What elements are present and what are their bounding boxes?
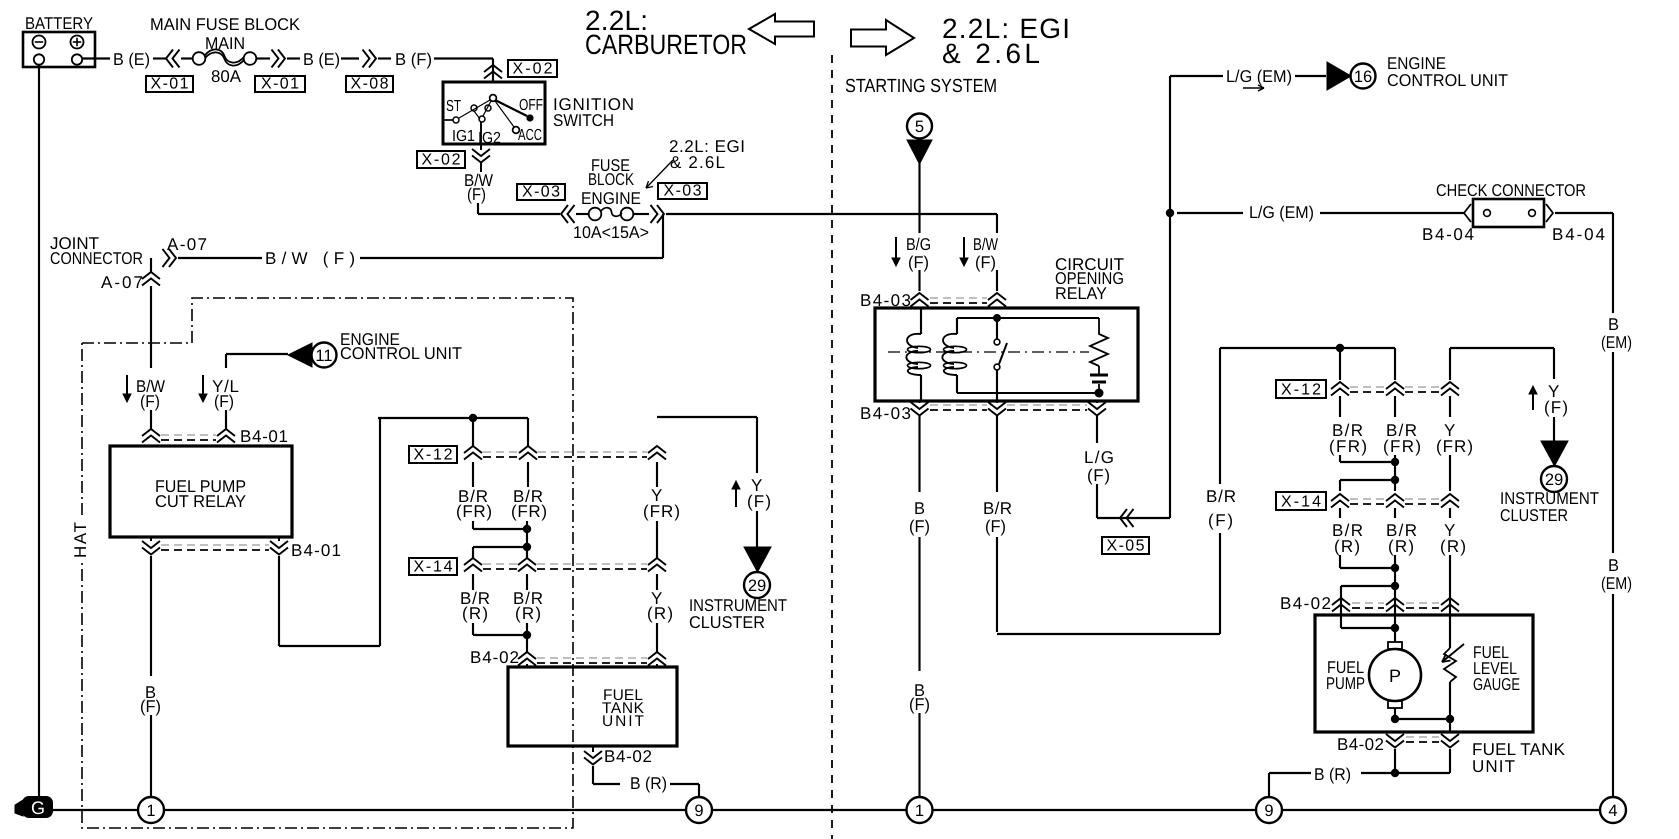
svg-text:(F): (F) (1087, 466, 1110, 485)
svg-text:X-03: X-03 (522, 184, 560, 201)
svg-text:MAIN: MAIN (205, 34, 245, 53)
svg-text:(F): (F) (467, 185, 486, 204)
svg-text:B/R: B/R (1206, 487, 1236, 506)
svg-text:(R): (R) (462, 604, 488, 623)
svg-text:G: G (31, 798, 45, 818)
svg-text:B/W: B/W (973, 235, 998, 254)
svg-text:(R): (R) (1440, 537, 1466, 556)
svg-text:B4-02: B4-02 (1337, 735, 1384, 754)
svg-text:CUT RELAY: CUT RELAY (155, 492, 246, 511)
svg-text:MAIN FUSE BLOCK: MAIN FUSE BLOCK (150, 15, 301, 34)
svg-text:(EM): (EM) (1601, 574, 1632, 593)
svg-text:P: P (1389, 666, 1401, 686)
svg-text:29: 29 (1545, 471, 1563, 489)
svg-text:STARTING SYSTEM: STARTING SYSTEM (845, 76, 997, 97)
svg-text:B (E): B (E) (303, 50, 340, 69)
svg-text:4: 4 (1608, 802, 1617, 820)
svg-text:1: 1 (146, 802, 155, 820)
svg-text:(R): (R) (1388, 537, 1414, 556)
svg-text:(F): (F) (140, 697, 161, 716)
svg-text:L/G (EM): L/G (EM) (1249, 203, 1314, 222)
svg-text:& 2.6L: & 2.6L (670, 153, 725, 172)
svg-text:CONNECTOR: CONNECTOR (50, 249, 143, 268)
svg-text:(R): (R) (1334, 537, 1360, 556)
svg-text:(FR): (FR) (456, 502, 492, 521)
svg-text:X-05: X-05 (1107, 538, 1145, 555)
svg-text:B (F): B (F) (395, 50, 432, 69)
svg-text:(FR): (FR) (643, 502, 680, 521)
svg-text:X-14: X-14 (1281, 494, 1321, 511)
svg-text:9: 9 (694, 802, 703, 820)
svg-text:(F): (F) (985, 517, 1006, 536)
svg-text:CLUSTER: CLUSTER (1500, 506, 1568, 525)
svg-text:80A: 80A (211, 67, 242, 86)
svg-text:5: 5 (915, 118, 924, 136)
svg-text:CLUSTER: CLUSTER (689, 613, 765, 632)
svg-text:X-08: X-08 (351, 76, 389, 93)
svg-text:(F): (F) (214, 392, 234, 411)
svg-text:GAUGE: GAUGE (1473, 675, 1520, 694)
svg-text:(F): (F) (975, 253, 996, 272)
svg-text:(F): (F) (747, 492, 771, 511)
svg-text:UNIT: UNIT (602, 713, 645, 730)
svg-text:B (R): B (R) (1314, 765, 1351, 784)
svg-text:X-01: X-01 (151, 76, 189, 93)
svg-text:BATTERY: BATTERY (25, 14, 93, 33)
svg-text:(F): (F) (909, 695, 930, 714)
svg-text:B4-04: B4-04 (1552, 225, 1605, 244)
svg-text:B: B (914, 499, 925, 518)
svg-text:(F): (F) (1208, 511, 1233, 530)
svg-text:RELAY: RELAY (1055, 284, 1107, 303)
svg-text:(F): (F) (908, 253, 929, 272)
svg-text:L/G (EM): L/G (EM) (1226, 67, 1292, 86)
svg-text:29: 29 (748, 577, 766, 595)
svg-text:X-12: X-12 (414, 447, 453, 464)
svg-text:1: 1 (915, 802, 924, 820)
svg-text:X-12: X-12 (1281, 382, 1321, 399)
svg-text:B: B (1608, 556, 1619, 575)
svg-text:(FR): (FR) (511, 502, 547, 521)
svg-text:10A<15A>: 10A<15A> (573, 223, 649, 242)
svg-text:B/R: B/R (983, 499, 1012, 518)
svg-text:CHECK CONNECTOR: CHECK CONNECTOR (1436, 181, 1586, 200)
svg-text:HAT: HAT (71, 522, 90, 558)
svg-text:X-14: X-14 (414, 559, 453, 576)
svg-text:X-02: X-02 (513, 61, 553, 78)
svg-text:B (R): B (R) (630, 774, 667, 793)
svg-text:(F): (F) (1544, 398, 1568, 417)
svg-text:B4-04: B4-04 (1422, 225, 1474, 244)
svg-text:B4-02: B4-02 (470, 648, 519, 667)
svg-text:BLOCK: BLOCK (588, 170, 635, 189)
svg-text:L/G: L/G (1084, 448, 1114, 467)
svg-text:9: 9 (1264, 802, 1273, 820)
svg-text:A-07: A-07 (101, 273, 143, 292)
svg-text:SWITCH: SWITCH (553, 111, 614, 130)
svg-text:UNIT: UNIT (1472, 757, 1515, 776)
svg-text:(FR): (FR) (1436, 437, 1473, 456)
svg-text:B (E): B (E) (113, 50, 150, 69)
svg-text:X-02: X-02 (422, 152, 461, 169)
svg-text:B/G: B/G (906, 235, 931, 254)
svg-text:OFF: OFF (519, 97, 543, 114)
svg-text:ST: ST (446, 98, 461, 115)
svg-text:PUMP: PUMP (1326, 674, 1365, 693)
svg-text:16: 16 (1354, 68, 1372, 86)
svg-text:B: B (1608, 315, 1619, 334)
svg-text:A-07: A-07 (167, 235, 207, 254)
svg-text:CONTROL UNIT: CONTROL UNIT (1387, 71, 1508, 90)
svg-text:(R): (R) (515, 604, 541, 623)
svg-text:11: 11 (315, 347, 332, 365)
svg-text:B4-02: B4-02 (1280, 594, 1331, 613)
svg-text:B4-03: B4-03 (860, 404, 911, 423)
svg-text:IG1: IG1 (452, 128, 475, 145)
svg-text:CONTROL UNIT: CONTROL UNIT (340, 344, 462, 363)
svg-text:CARBURETOR: CARBURETOR (585, 29, 747, 60)
svg-text:X-03: X-03 (664, 183, 702, 200)
svg-text:(F): (F) (909, 517, 930, 536)
svg-text:B4-01: B4-01 (291, 541, 341, 560)
svg-text:(F): (F) (140, 392, 160, 411)
svg-text:ACC: ACC (518, 127, 542, 144)
svg-text:ENGINE: ENGINE (581, 189, 641, 208)
svg-text:B4-01: B4-01 (240, 427, 288, 446)
svg-text:X-01: X-01 (261, 76, 299, 93)
svg-text:B4-02: B4-02 (604, 747, 652, 766)
svg-text:(R): (R) (647, 604, 673, 623)
svg-text:(EM): (EM) (1601, 333, 1632, 352)
